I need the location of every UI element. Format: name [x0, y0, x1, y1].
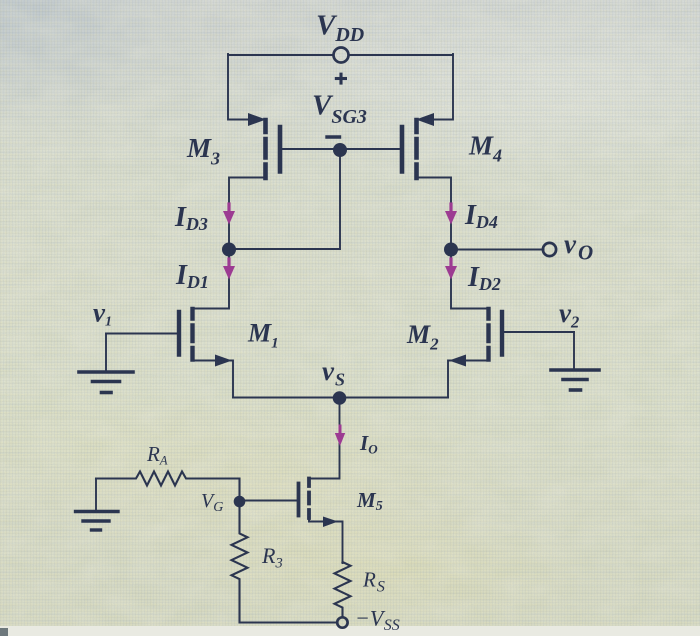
svg-text:RS: RS — [362, 568, 385, 596]
wire M1 drain — [193, 249, 229, 309]
svg-text:IO: IO — [359, 431, 378, 457]
wire vS to M5 drain — [310, 398, 340, 479]
svg-text:ID3: ID3 — [174, 202, 208, 234]
node VSG3 gate — [333, 143, 347, 157]
svg-text:vO: vO — [564, 229, 593, 265]
svg-text:VG: VG — [201, 490, 223, 515]
wire sources to node vS — [233, 397, 448, 399]
minus sign VSG3 — [327, 135, 340, 138]
wire RA to ground — [95, 479, 97, 511]
wire v2 to ground — [573, 332, 575, 369]
transistor M2 — [448, 309, 574, 398]
svg-text:VSG3: VSG3 — [312, 90, 367, 129]
plus sign — [335, 73, 347, 85]
transistor M1 — [106, 309, 233, 398]
transistor M3 — [229, 113, 334, 249]
wire top rail right — [349, 54, 454, 56]
ground v2 — [551, 370, 599, 390]
terminal VDD — [334, 48, 349, 63]
svg-text:M1: M1 — [247, 319, 279, 352]
wire right drop to M4 source — [430, 54, 453, 120]
node M4 drain junction — [444, 243, 458, 257]
terminal -VSS — [337, 617, 347, 627]
svg-text:M3: M3 — [186, 133, 220, 169]
wire bottom — [240, 622, 338, 624]
current arrow ID1 — [223, 259, 235, 280]
ground v1 — [79, 372, 133, 393]
transistor M4 — [346, 113, 451, 250]
svg-text:ID4: ID4 — [464, 200, 498, 232]
resistor RA — [96, 472, 240, 498]
svg-text:RA: RA — [146, 442, 168, 468]
current arrow ID4 — [445, 204, 457, 225]
wire output — [451, 249, 544, 251]
svg-text:R3: R3 — [261, 543, 283, 572]
wire top rail left — [228, 54, 334, 56]
ground RA — [76, 512, 119, 531]
transistor M5 — [243, 479, 343, 564]
wire M2 drain — [451, 250, 488, 309]
terminal vO — [543, 243, 556, 256]
node VG — [234, 496, 246, 508]
current arrow ID2 — [445, 259, 457, 280]
wire left drop to M3 source — [228, 54, 252, 120]
resistor R3 — [232, 507, 248, 623]
wire v1 to ground — [105, 334, 107, 372]
svg-text:v1: v1 — [93, 298, 112, 330]
svg-text:vS: vS — [322, 356, 345, 390]
node vS — [333, 391, 347, 405]
svg-text:ID2: ID2 — [467, 262, 501, 294]
svg-text:M5: M5 — [356, 488, 383, 514]
svg-text:M2: M2 — [406, 320, 439, 354]
svg-text:M4: M4 — [468, 131, 502, 166]
svg-text:ID1: ID1 — [175, 260, 209, 292]
current arrow ID3 — [223, 204, 235, 225]
current arrow IO — [335, 426, 345, 446]
svg-text:−VSS: −VSS — [355, 606, 400, 635]
node M3 drain junction — [222, 243, 236, 257]
resistor RS — [335, 562, 351, 617]
svg-text:v2: v2 — [559, 298, 579, 332]
wire diode-connect M3 drain to gate node — [229, 153, 340, 249]
svg-text:VDD: VDD — [316, 10, 364, 46]
